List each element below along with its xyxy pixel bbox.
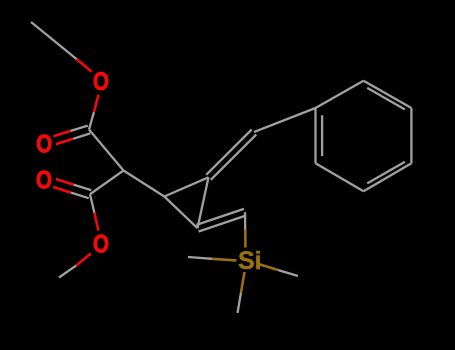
svg-text:O: O: [36, 131, 52, 159]
svg-text:O: O: [93, 68, 109, 96]
svg-text:O: O: [93, 231, 109, 259]
svg-text:O: O: [36, 167, 52, 195]
svg-text:Si: Si: [238, 247, 262, 275]
